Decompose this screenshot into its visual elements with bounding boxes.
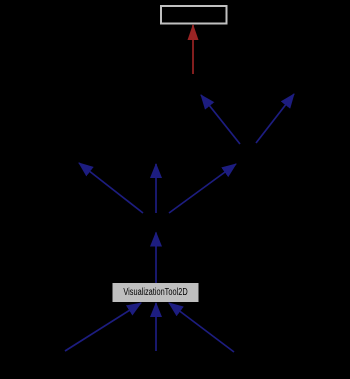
svg-text:VisualizationTool2D: VisualizationTool2D xyxy=(123,286,187,297)
